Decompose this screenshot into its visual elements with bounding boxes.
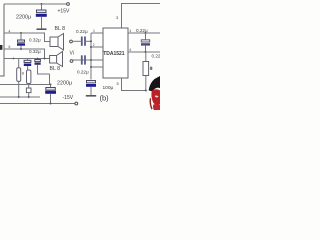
capacitor 0.22u (a) upper xyxy=(17,33,25,49)
svg-text:-15V: -15V xyxy=(63,95,74,101)
node xyxy=(145,32,147,34)
node xyxy=(90,66,92,68)
speaker BL2 xyxy=(50,52,63,67)
node xyxy=(37,58,39,60)
wire out2 (a) xyxy=(4,49,45,59)
svg-text:(b): (b) xyxy=(100,94,110,103)
resistor (a) R1 xyxy=(17,59,21,98)
node xyxy=(20,32,22,34)
capacitor 2200u upper xyxy=(36,4,47,29)
svg-text:2200μ: 2200μ xyxy=(57,80,72,86)
IC box (a) right edge xyxy=(0,4,4,76)
svg-text:6: 6 xyxy=(130,48,132,52)
ladder vertical (b) xyxy=(90,33,92,80)
svg-text:100μ: 100μ xyxy=(103,85,114,91)
svg-text:Vi: Vi xyxy=(70,51,74,57)
wire input 1 xyxy=(73,40,81,42)
svg-text:8: 8 xyxy=(22,72,24,76)
wire +Vs (b) top xyxy=(122,4,161,29)
svg-text:6: 6 xyxy=(9,45,11,49)
terminal Vi upper xyxy=(70,40,73,43)
svg-text:8: 8 xyxy=(150,67,152,71)
pin 5 wire bottom xyxy=(122,78,147,91)
wire ground mid (a) xyxy=(0,84,51,86)
capacitor 0.22u zobel (b) xyxy=(141,33,150,52)
IC box U1 TDA1521 xyxy=(103,28,128,78)
svg-text:+15V: +15V xyxy=(58,8,70,14)
svg-text:5: 5 xyxy=(117,81,120,86)
resistor zobel (b) xyxy=(143,52,149,91)
terminal -15V xyxy=(75,102,78,105)
wire xyxy=(86,40,91,42)
capacitor small (a) right xyxy=(35,59,50,75)
svg-text:2200μ: 2200μ xyxy=(16,15,31,21)
svg-text:BL 8: BL 8 xyxy=(55,26,66,32)
ground xyxy=(86,95,96,97)
node xyxy=(145,90,147,92)
node xyxy=(18,96,20,98)
terminal Vi lower xyxy=(70,60,73,63)
capacitor 2200u lower xyxy=(45,85,56,104)
wire to speaker 2 xyxy=(4,58,50,60)
capacitor 0.22u input 2 xyxy=(82,55,85,64)
node xyxy=(90,59,92,61)
resistor (a) R2 xyxy=(26,70,31,97)
capacitor (a) mid chain xyxy=(24,59,31,71)
node xyxy=(145,51,147,53)
node xyxy=(90,46,92,48)
wire out2 (b) xyxy=(128,51,160,53)
svg-text:4: 4 xyxy=(9,29,11,33)
pin 1 rung xyxy=(91,32,103,34)
ground xyxy=(37,28,47,30)
svg-text:0.22: 0.22 xyxy=(152,54,161,59)
node xyxy=(13,58,15,60)
svg-text:0.22μ: 0.22μ xyxy=(136,28,148,33)
svg-text:2: 2 xyxy=(93,43,95,47)
svg-text:TDA1521: TDA1521 xyxy=(103,51,125,57)
svg-text:0.32μ: 0.32μ xyxy=(29,49,41,54)
pin 8 rung xyxy=(91,66,103,68)
IC (a) label fragment xyxy=(0,45,2,50)
node xyxy=(50,103,52,105)
svg-text:0.22μ: 0.22μ xyxy=(77,70,89,75)
watermark logo xyxy=(149,76,160,110)
node xyxy=(90,40,92,42)
node xyxy=(20,48,22,50)
pin 2 rung xyxy=(91,46,103,48)
wire +15V rail top xyxy=(4,3,67,5)
wire xyxy=(49,74,51,85)
wire -15V rail xyxy=(0,103,75,105)
node junction top xyxy=(41,3,43,5)
node xyxy=(50,84,52,86)
speaker BL1 xyxy=(50,34,64,51)
svg-text:1: 1 xyxy=(93,29,95,33)
node xyxy=(44,58,46,60)
node xyxy=(28,96,30,98)
wire ground bus (a) xyxy=(0,96,40,98)
wire out1 (b) xyxy=(128,32,160,34)
wire input 2 / pin rung xyxy=(73,59,103,61)
capacitor 100u xyxy=(86,81,96,96)
svg-text:4: 4 xyxy=(130,29,132,33)
terminal +15V xyxy=(67,3,70,6)
svg-text:3: 3 xyxy=(116,15,119,20)
svg-text:BL 8: BL 8 xyxy=(50,66,61,72)
wire out1 (a) xyxy=(4,33,50,42)
svg-text:0.22μ: 0.22μ xyxy=(76,29,88,34)
svg-text:0.32μ: 0.32μ xyxy=(29,37,41,42)
capacitor 0.22u input 1 xyxy=(82,37,85,46)
